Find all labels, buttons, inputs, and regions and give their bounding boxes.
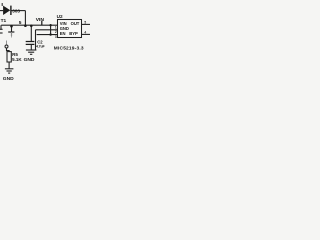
svg-text:5: 5 [19, 20, 22, 26]
wire GND pin net horizontal [36, 29, 58, 31]
node junction dot on VIN at EN tie [49, 24, 51, 26]
wire vertical drop from diode to VIN net [24, 11, 26, 26]
svg-text:5.1K: 5.1K [12, 57, 22, 62]
svg-text:MIC5219-3.3: MIC5219-3.3 [54, 46, 84, 52]
svg-text:4: 4 [84, 31, 86, 35]
svg-text:VIN: VIN [36, 17, 45, 23]
op-amp U2 regulator MIC5219 box [58, 20, 82, 38]
wire BYP pin to right edge [82, 33, 91, 35]
svg-text:1: 1 [55, 25, 57, 29]
svg-text:T1: T1 [1, 18, 7, 24]
resistor R5 [7, 52, 11, 62]
wire main VIN net horizontal [1, 24, 57, 26]
svg-text:EN: EN [60, 31, 66, 36]
ground below C2 [26, 50, 37, 54]
wire resistor bottom to ground [8, 62, 10, 69]
svg-text:U2: U2 [57, 14, 63, 19]
node junction dot on VIN at C2 feed [30, 25, 33, 28]
wire faint stub above circle [6, 41, 8, 45]
svg-text:3: 3 [55, 35, 57, 39]
wire cathode of D303 to corner [11, 10, 25, 12]
wire GND pin net vertical down to ground [35, 30, 37, 50]
wire VIN label leader [41, 21, 43, 25]
node junction dot on VIN above R5 column [10, 25, 13, 28]
svg-text:4.7uF: 4.7uF [36, 44, 46, 48]
wire left-edge winding tick down [0, 25, 2, 29]
svg-text:BYP: BYP [69, 31, 78, 36]
wire faint stub below T-bar [11, 32, 13, 38]
svg-text:GND: GND [24, 57, 35, 63]
svg-text:5: 5 [84, 21, 86, 25]
ground below R5 [5, 69, 14, 73]
wire anode lead into D303 [0, 10, 3, 12]
wire EN pin net horizontal [37, 34, 58, 36]
svg-text:OUT: OUT [71, 21, 80, 26]
svg-text:303: 303 [12, 9, 20, 14]
wire circle to resistor top [7, 48, 10, 52]
wire EN tie to VIN vertical [50, 25, 52, 34]
node junction dot on EN wire at tie bottom [49, 33, 51, 35]
svg-text:GND: GND [3, 76, 14, 82]
node T-bar terminal [8, 31, 14, 33]
wire OUT pin to right edge [82, 23, 91, 25]
wire stub below junction to T-bar [11, 25, 13, 36]
wire left-edge plate 1 [0, 28, 3, 30]
node junction dot on VIN at diode drop [24, 24, 27, 27]
capacitor C2 [26, 42, 35, 45]
wire C2 bottom to ground [30, 45, 32, 50]
wire C2 feed from VIN net [30, 25, 32, 41]
diode D303 [2, 3, 11, 15]
wire left-edge plate 2 [0, 32, 3, 34]
terminal circle above R5 [5, 45, 8, 48]
svg-text:2: 2 [55, 30, 57, 34]
